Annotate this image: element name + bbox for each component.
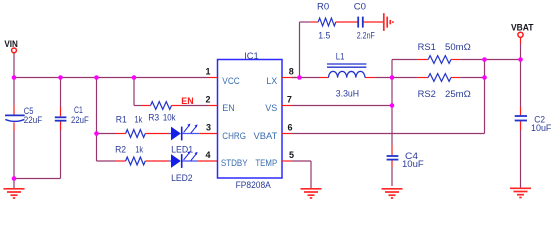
- wire VBAT pin6 row: [292, 133, 485, 135]
- svg-text:CHRG: CHRG: [222, 131, 246, 141]
- svg-text:1.5: 1.5: [318, 30, 330, 40]
- wire R2 row: [97, 160, 169, 162]
- svg-text:C0: C0: [354, 2, 366, 12]
- wire R1 R2 feeder: [96, 78, 98, 162]
- resistor RS1: [418, 42, 471, 63]
- wire RS to VBAT node: [485, 59, 521, 61]
- svg-text:5: 5: [289, 150, 294, 160]
- svg-text:LX: LX: [266, 76, 277, 86]
- resistor R0: [317, 2, 336, 41]
- wire RS1 row: [392, 59, 485, 61]
- svg-text:10k: 10k: [163, 113, 176, 123]
- svg-text:6: 6: [288, 123, 293, 133]
- svg-text:LED2: LED2: [171, 173, 193, 183]
- resistor R1: [116, 115, 145, 138]
- pin 5 stub: [282, 150, 294, 161]
- capacitor C4: [387, 151, 425, 169]
- wire VS row: [292, 105, 393, 107]
- wire VBAT vertical: [520, 38, 522, 188]
- capacitor C5: [5, 106, 43, 125]
- svg-text:4: 4: [205, 150, 210, 160]
- LED1: [169, 124, 200, 155]
- inductor L1: [327, 52, 366, 99]
- svg-text:7: 7: [287, 95, 292, 105]
- pin 2 stub: [205, 95, 217, 106]
- svg-text:TEMP: TEMP: [255, 158, 277, 168]
- wire snubber branch: [300, 22, 384, 78]
- svg-text:50mΩ: 50mΩ: [445, 42, 471, 52]
- resistor RS2: [418, 74, 471, 99]
- wire LED2 to pin4: [197, 160, 217, 162]
- svg-text:R2: R2: [115, 144, 126, 154]
- ground left: [4, 189, 25, 198]
- wire TEMP pin5: [292, 161, 312, 188]
- svg-text:1k: 1k: [135, 115, 143, 125]
- svg-text:VBAT: VBAT: [511, 23, 534, 33]
- svg-text:RS2: RS2: [418, 89, 436, 99]
- pin 7 stub: [282, 95, 292, 106]
- svg-text:R3: R3: [148, 113, 159, 123]
- svg-text:R1: R1: [116, 115, 127, 125]
- svg-text:IC1: IC1: [244, 51, 259, 61]
- wire LX row: [292, 77, 485, 79]
- IC U1 box: [218, 51, 283, 190]
- svg-text:EN: EN: [181, 96, 193, 106]
- capacitor C0: [354, 2, 375, 41]
- svg-text:FP8208A: FP8208A: [236, 180, 271, 190]
- wire RS left vertical: [391, 60, 393, 187]
- svg-text:C1: C1: [74, 105, 83, 115]
- svg-text:2: 2: [205, 95, 210, 105]
- resistor R2: [115, 144, 145, 165]
- wire R3 branch: [134, 78, 209, 106]
- svg-text:22uF: 22uF: [71, 115, 89, 125]
- svg-text:R0: R0: [317, 2, 329, 12]
- svg-text:1: 1: [205, 67, 210, 77]
- wire RS right vertical: [484, 60, 486, 134]
- wire bottom rail: [14, 178, 61, 180]
- pin 1 stub: [205, 67, 217, 78]
- svg-text:10uF: 10uF: [531, 123, 552, 133]
- svg-text:22uF: 22uF: [24, 115, 43, 125]
- svg-text:3: 3: [206, 123, 211, 133]
- wire VIN vertical: [13, 53, 15, 77]
- pin 8 stub: [282, 67, 296, 78]
- capacitor C1: [55, 105, 89, 125]
- svg-text:10uF: 10uF: [402, 159, 424, 169]
- ground under C2: [510, 188, 531, 197]
- wire LED1 to pin3: [199, 133, 217, 135]
- svg-text:1k: 1k: [135, 144, 143, 154]
- wire C5 branch: [13, 78, 15, 179]
- svg-text:8: 8: [289, 67, 294, 77]
- svg-text:EN: EN: [222, 103, 235, 113]
- wire ground stub left: [13, 179, 15, 189]
- ground under pin5: [301, 189, 322, 198]
- ground under C4: [382, 189, 403, 198]
- terminal VIN: [12, 48, 17, 53]
- pin 6 stub: [282, 123, 293, 134]
- svg-text:VBAT: VBAT: [254, 131, 278, 141]
- svg-text:VIN: VIN: [4, 39, 18, 49]
- terminal VBAT: [518, 32, 523, 37]
- ground sideways top: [384, 13, 393, 31]
- resistor R3: [148, 102, 176, 123]
- capacitor C2: [515, 114, 552, 133]
- svg-text:RS1: RS1: [418, 42, 436, 52]
- svg-text:VS: VS: [265, 103, 277, 113]
- wire R1 row: [97, 133, 169, 135]
- wire C1 branch: [60, 78, 62, 179]
- svg-text:L1: L1: [336, 52, 345, 62]
- svg-text:VCC: VCC: [222, 76, 240, 86]
- svg-text:3.3uH: 3.3uH: [336, 88, 359, 98]
- svg-text:STDBY: STDBY: [221, 158, 248, 168]
- wire input bus: [14, 77, 209, 79]
- LED2: [169, 151, 198, 183]
- svg-text:25mΩ: 25mΩ: [445, 89, 471, 99]
- svg-text:2.2nF: 2.2nF: [357, 30, 375, 40]
